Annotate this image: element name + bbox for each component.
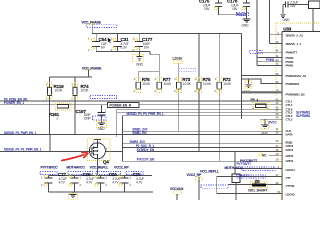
resistor PR4 (series on CTL line) [251, 98, 270, 110]
wire Q4 gate net [0, 151, 90, 153]
svg-text:VCC_REPLL: VCC_REPLL [90, 165, 109, 169]
wire VCC_REPLL drop [216, 177, 218, 194]
svg-text:SWB1_EN: SWB1_EN [132, 131, 147, 135]
capacitor C197 (DNP) [76, 105, 107, 123]
svg-text:PR_4: PR_4 [251, 98, 259, 102]
wire below series element [235, 183, 237, 201]
selection box (dashed) on VTT wire [236, 175, 265, 178]
svg-text:GND: GND [98, 127, 106, 131]
wire vertical feed pins 8/10 [269, 0, 271, 43]
svg-text:DBVSV_2_A1: DBVSV_2_A1 [286, 33, 304, 37]
svg-text:PVINVTT: PVINVTT [286, 51, 298, 55]
resistor Z8 (0201 short) [248, 179, 268, 193]
svg-text:DNP: DNP [84, 117, 91, 121]
svg-text:DBVSV_1_4: DBVSV_1_4 [286, 42, 302, 46]
wire bottom rail (cap ground) [96, 50, 150, 52]
svg-text:4.7V: 4.7V [86, 180, 93, 184]
svg-text:VCC_PHASE: VCC_PHASE [82, 66, 102, 70]
U33 pin 32 PVINSWA1 (staircase wire) [241, 79, 300, 86]
svg-text:30: 30 [276, 131, 280, 135]
resistor R77 [154, 77, 172, 93]
U33 pin 18 PVINSWB1_B2 (thick selected wire) [241, 89, 305, 97]
svg-text:VCC2_RP: VCC2_RP [114, 165, 129, 169]
selection box (dashed) C25 net [96, 171, 121, 174]
selection box (dashed) above POWER_EN rail [90, 95, 117, 98]
wire bus CTL6 (with corner) [117, 109, 282, 137]
U33 pin 10 DBVSV_1_4 [270, 40, 302, 46]
selection box (dashed) right of C25 [126, 171, 143, 174]
wire feed vertical to U33 PVIN [240, 34, 242, 120]
svg-text:M2SSD_P0_P3_PWR_EN_1: M2SSD_P0_P3_PWR_EN_1 [4, 147, 42, 151]
U33 pin 9 LDOA1 [235, 165, 295, 172]
U33 pin 48 VTTFB [228, 181, 295, 188]
ground (under cap rail) [133, 51, 144, 66]
U33 pin 43 CTL4 [276, 101, 293, 107]
U33 pin 46 PVINVTT [250, 49, 298, 55]
svg-text:LDOA1: LDOA1 [286, 168, 296, 172]
svg-text:28: 28 [276, 152, 280, 156]
component box (series element) [232, 174, 240, 183]
svg-text:PVINLDOA2_A3: PVINLDOA2_A3 [286, 74, 307, 78]
capacitor C175 (top edge, cut) [199, 0, 246, 15]
svg-text:SYSRDY_EN: SYSRDY_EN [137, 148, 155, 152]
wire bus CTL3 [117, 111, 282, 113]
svg-text:10.0K: 10.0K [183, 82, 192, 86]
ground (cap bank) [69, 192, 78, 199]
svg-text:PVCC: PVCC [269, 120, 278, 124]
U33 pin 8 DBVSV_2_A1 [270, 31, 304, 37]
svg-text:4.7V: 4.7V [136, 180, 143, 184]
U33 pin 15 IRQB [123, 139, 294, 145]
U33 pin 47 CTL3_SLPSWB1 [276, 109, 311, 115]
svg-text:PVINSWB1_B2: PVINSWB1_B2 [286, 93, 306, 97]
capacitor C176 (top edge, cut) [227, 0, 250, 19]
capacitor C177 [132, 34, 153, 52]
svg-text:SLPSWB2: SLPSWB2 [296, 114, 310, 118]
U33 pin 42 CTL1 [276, 97, 293, 103]
wire bus CTL5 (with corner) [123, 116, 283, 162]
svg-text:GND: GND [242, 24, 250, 28]
selection box (dashed) below L2039 [179, 68, 196, 71]
power flag VCC2_RP [187, 173, 203, 200]
U33 pin 12 PVIN4 + net label [257, 58, 294, 64]
power flag VCCAUX [170, 187, 184, 200]
svg-text:PVIN1: PVIN1 [286, 64, 294, 68]
U33 pin 31 CLK [123, 127, 293, 133]
resistor R119 [46, 77, 64, 135]
svg-text:VTT: VTT [286, 176, 291, 180]
svg-text:0201_SHORT: 0201_SHORT [248, 188, 267, 192]
power flag VCC_PHASE (second) [82, 66, 102, 77]
pin highlight band (yellow dotted) [276, 23, 320, 200]
IC U33 outline [282, 27, 320, 200]
wire top rail VCC_PHASE [92, 33, 241, 35]
selection box (dashed) C27 net [40, 171, 57, 174]
svg-text:4.7V: 4.7V [59, 180, 66, 184]
svg-text:16V: 16V [204, 7, 210, 11]
wire pullup rail (R119/R74) [50, 76, 93, 78]
capacitor C26 [69, 172, 94, 192]
resistor R73 [174, 77, 192, 132]
svg-text:NC: NC [262, 153, 267, 157]
svg-text:Q4: Q4 [103, 159, 109, 164]
svg-text:GPO3: GPO3 [286, 154, 294, 158]
off-page connector POWER_EN_R [108, 103, 140, 108]
U33 pin 44 CTL2 [260, 116, 293, 122]
svg-text:PVCCVT_EN: PVCCVT_EN [137, 158, 155, 162]
U33 pin 15 PVIN1 [257, 62, 294, 68]
svg-text:GND: GND [283, 18, 291, 22]
svg-text:M2SSD_P3_PWR_EN_1: M2SSD_P3_PWR_EN_1 [4, 131, 37, 135]
resistor R75 [194, 77, 212, 152]
mouse cursor [108, 37, 112, 44]
svg-text:PVTTBVCC: PVTTBVCC [41, 165, 59, 169]
svg-text:Z8: Z8 [255, 179, 261, 184]
svg-text:10.0K: 10.0K [163, 82, 172, 86]
svg-text:GND: GND [136, 63, 144, 67]
svg-text:10.0K: 10.0K [203, 82, 212, 86]
svg-text:PVCC5: PVCC5 [237, 12, 247, 16]
svg-text:VTTFB: VTTFB [286, 184, 296, 188]
svg-text:10.0K: 10.0K [223, 82, 232, 86]
ground (top caps) [242, 19, 251, 28]
svg-text:DATA: DATA [286, 133, 294, 137]
wire rail drop R72 [218, 34, 220, 83]
svg-text:GPO4: GPO4 [286, 159, 294, 163]
U33 pin 27 GPO2 [123, 144, 294, 148]
wire bus CTL4 [0, 104, 282, 106]
resistor R76 [133, 77, 151, 93]
svg-text:10.0K: 10.0K [142, 82, 151, 86]
svg-text:10.0K: 10.0K [81, 89, 90, 93]
U33 pin 28 GPO3 (NC) [258, 152, 294, 158]
wire cap bank top rail [49, 174, 152, 176]
resistor R72 [214, 77, 232, 162]
svg-text:PVCC: PVCC [240, 174, 249, 178]
svg-text:MOTHAVCC: MOTHAVCC [67, 165, 86, 169]
capacitor C54 [88, 34, 107, 52]
U33 pin 11 PVIN3 [257, 54, 294, 60]
red annotation arrow [62, 155, 84, 161]
svg-text:GND: GND [261, 132, 269, 136]
power flag VCC_PHASE (top) [82, 20, 102, 33]
svg-text:POWER_EN_R: POWER_EN_R [110, 104, 132, 108]
svg-text:U33: U33 [283, 27, 291, 32]
svg-text:15: 15 [276, 139, 280, 143]
ground (left of pin 32) [244, 79, 253, 94]
svg-text:6.3V: 6.3V [121, 46, 128, 50]
U33 pin 50 PVINLDOA2_A3 [241, 72, 306, 78]
U33 pin 30 DATA [0, 131, 294, 137]
capacitor C24 [95, 172, 121, 192]
wire bus CTL1 [0, 100, 282, 102]
selection box (dashed) on LDOA1 wire [242, 167, 275, 171]
svg-text:GPO1: GPO1 [286, 148, 294, 152]
selection box (dashed) C24 net [68, 171, 93, 174]
U33 pin 16 GPO1 [276, 148, 294, 152]
svg-text:MOTHAVCC: MOTHAVCC [225, 166, 244, 170]
svg-text:4.7V: 4.7V [112, 180, 119, 184]
capacitor C31 [111, 34, 129, 52]
ground (2.2UF cap) [280, 14, 290, 22]
transistor Q4 [88, 139, 111, 175]
wire vertical feed PVIN bundle [256, 0, 258, 65]
capacitor C2.2UF (right of U33 top) [283, 0, 320, 31]
ground (CTL2 pulldown) [261, 119, 269, 135]
selection box (dashed) left low [201, 185, 228, 188]
wire branch down to Q4 gate net [49, 135, 51, 152]
U33 pin 45 VTT [217, 173, 291, 180]
resistor R74 [71, 77, 89, 135]
capacitor C25 [119, 172, 144, 192]
net label (dashed box) on cap ground node [237, 12, 249, 16]
svg-text:PVIN4: PVIN4 [266, 58, 275, 62]
U33 pin 51 LDOA2 [217, 190, 295, 196]
svg-text:10V: 10V [144, 46, 150, 50]
svg-text:CTL2: CTL2 [286, 118, 293, 122]
wire cap bank bottom rail [49, 191, 153, 193]
svg-text:10.0K: 10.0K [55, 89, 64, 93]
wire MOTHAVCC drop [234, 152, 236, 174]
svg-text:16V: 16V [232, 7, 238, 11]
svg-text:LDOA2: LDOA2 [286, 193, 296, 197]
selection box (dashed) under VCC_PHASE [87, 24, 118, 27]
U33 pin 19 GPO4 [123, 158, 294, 163]
svg-text:PVINSWA1: PVINSWA1 [286, 82, 300, 86]
svg-text:VCC_REPLL: VCC_REPLL [200, 170, 219, 174]
svg-text:PVTTAVTT: PVTTAVTT [237, 162, 252, 166]
capacitor C27 [41, 172, 67, 192]
wire Q4 drain net to right [105, 151, 282, 153]
wire R76/R77 feed link from cap rail [138, 51, 160, 82]
wire rail drop R75 [198, 34, 200, 83]
ground (C197) [97, 121, 107, 131]
inductor L2039 [173, 56, 183, 82]
resistor R161 (series) [49, 103, 71, 121]
U33 pin 45 CTL6 [276, 105, 293, 111]
U33 pin 46 CTL5_SLPSWB2 [276, 112, 311, 118]
